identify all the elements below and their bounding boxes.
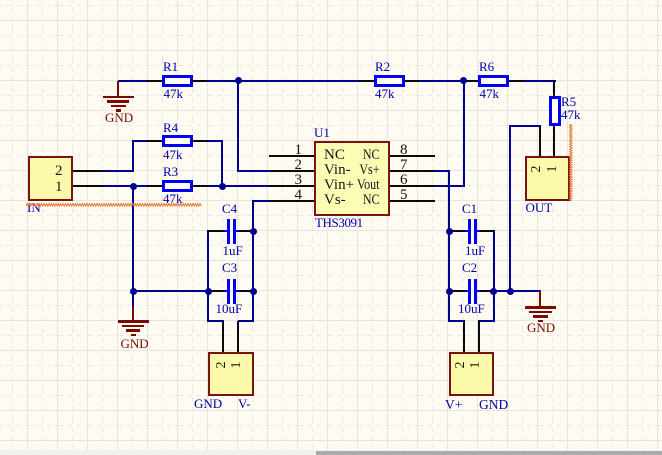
junction node Vin+ bbox=[219, 183, 226, 190]
ground GND right bbox=[0, 0, 1, 1]
junction node C3 right bbox=[250, 288, 257, 295]
resistor R6 bbox=[0, 0, 1, 1]
junction node rail-R6 bbox=[460, 77, 467, 84]
resistor R5 bbox=[0, 0, 1, 1]
wire left cap bus bbox=[0, 0, 1, 1]
junction node C2 left bbox=[446, 288, 453, 295]
U1 pin 7 bbox=[390, 170, 435, 172]
capacitor C2 bbox=[0, 0, 1, 1]
capacitor C3 bbox=[0, 0, 1, 1]
wire OUT pin2 to GND bbox=[0, 0, 1, 1]
junction node GND row left bbox=[130, 288, 137, 295]
U1 pin names bbox=[324, 148, 345, 163]
U1 pin 8 bbox=[390, 155, 435, 157]
wire vertical to U1 pin2 bbox=[0, 0, 1, 1]
connector J-pos (V+ / GND) bbox=[0, 0, 1, 1]
U1 pin 5 bbox=[390, 200, 435, 202]
junction node C3 left bbox=[205, 288, 212, 295]
wire IN pin1 down to GND row bbox=[0, 0, 1, 1]
U1 pin 4 bbox=[269, 200, 315, 202]
capacitor C1 bbox=[0, 0, 1, 1]
scrollbar bbox=[0, 450, 662, 455]
connector IN bbox=[0, 0, 1, 1]
IN net squiggle bbox=[26, 202, 206, 208]
OUT net squiggle bbox=[568, 124, 574, 204]
connector J-neg (GND / V-) bbox=[0, 0, 1, 1]
U1 pin 1 bbox=[269, 155, 315, 157]
resistor R2 bbox=[0, 0, 1, 1]
U1 pin 6 bbox=[390, 185, 435, 187]
wire C2 row to right GND bbox=[493, 290, 542, 292]
wire Vs+ pin7 to V+ bus bbox=[0, 0, 1, 1]
wire right cap bus bbox=[0, 0, 1, 1]
junction node C1 left bbox=[446, 228, 453, 235]
resistor R1 bbox=[0, 0, 1, 1]
junction node C2 right bbox=[490, 288, 497, 295]
wire R4 right to Vin+ node bbox=[0, 0, 1, 1]
ground GND bottom-left bbox=[0, 0, 1, 1]
op-amp U1 bbox=[0, 0, 1, 1]
wire feedback Vout to rail bbox=[0, 0, 1, 1]
wire IN pin2 to R4 bbox=[0, 0, 1, 1]
resistor R3 bbox=[0, 0, 1, 1]
U1 pin 2 bbox=[269, 170, 315, 172]
junction node C4 right bbox=[250, 228, 257, 235]
ground GND top-left bbox=[0, 0, 1, 1]
junction node rail-R1R2 bbox=[235, 77, 242, 84]
junction node OUT-GND bbox=[507, 288, 514, 295]
wire U1 pin4 Vs- to V- bus bbox=[0, 0, 1, 1]
connector OUT bbox=[0, 0, 1, 1]
wire top rail bbox=[0, 0, 1, 1]
U1 pin 3 bbox=[269, 185, 315, 187]
wire R3 to U1 pin3 bbox=[207, 185, 269, 187]
resistor R4 bbox=[0, 0, 1, 1]
capacitor C4 bbox=[0, 0, 1, 1]
wire IN pin1 to R3 bbox=[103, 185, 147, 187]
junction node IN1 bbox=[130, 183, 137, 190]
